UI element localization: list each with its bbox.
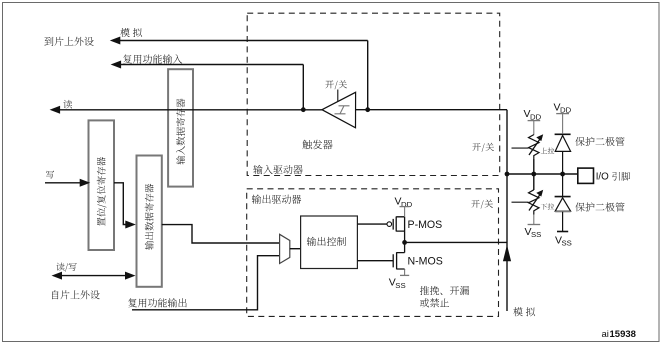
label 复用功能输出 (128, 298, 187, 307)
diode to V_SS 保护二极管 (562, 174, 564, 196)
wire node to pull-down (533, 174, 535, 190)
arrowhead AF input left (111, 61, 122, 69)
wire switch stub to pull-up (512, 147, 529, 149)
svg-text:15938: 15938 (610, 329, 636, 340)
junction dot analog/trigger-in (365, 107, 370, 112)
analog arrowhead up 模拟 (503, 245, 511, 261)
register box 输入数据寄存器 (168, 69, 193, 186)
label 写 (46, 171, 54, 179)
wire analog vertical drop (367, 41, 369, 110)
label 读/写 (56, 263, 76, 272)
wire vertical pad column (506, 110, 508, 311)
register box 置位/复位寄存器 (89, 120, 115, 250)
arrowhead read left (50, 106, 61, 114)
wire set/reset reg to output data reg (114, 183, 126, 225)
svg-text:P-MOS: P-MOS (408, 219, 443, 231)
wire analog line to peripherals (119, 40, 368, 42)
input driver dashed box 输入驱动器 (247, 13, 500, 175)
resistor pull-down zigzag (529, 190, 540, 215)
label 开/关 lower switch (471, 200, 493, 209)
svg-text:I/O: I/O (596, 172, 609, 183)
wire alternate function input line (120, 64, 303, 66)
schmitt trigger TTL 触发器 (322, 92, 356, 128)
label 开/关 upper switch (472, 143, 494, 152)
arrow across pull-down resistor (529, 195, 540, 211)
arrowhead analog left (110, 37, 121, 45)
label 复用功能输入 (123, 54, 182, 63)
I/O pin pad square (578, 168, 594, 183)
register box 输出数据寄存器 (137, 156, 162, 287)
wire mux to output control (290, 248, 301, 250)
wire I/O node line (507, 173, 578, 175)
label 到片上外设 (44, 37, 93, 46)
label 保护二极管 upper (575, 137, 624, 146)
label input data register 输入数据寄存器 (176, 99, 185, 165)
mux trapezoid (280, 234, 290, 263)
svg-text:DD: DD (401, 200, 413, 209)
junction dot MOS output (402, 240, 407, 245)
V_SS rail below lower diode (562, 212, 564, 232)
label 触发器 (302, 140, 332, 150)
label 下拉 (541, 203, 555, 209)
junction dot node at diodes (560, 172, 565, 177)
label 保护二极管 lower (575, 202, 624, 211)
P-MOS gate bubble (387, 222, 392, 227)
arrowhead r/w right (125, 272, 136, 280)
wire AF input vertical drop (302, 65, 304, 110)
svg-text:SS: SS (395, 281, 405, 290)
transistor P-MOS symbol (393, 217, 404, 243)
svg-text:ai: ai (602, 329, 609, 340)
arrowhead r/w left (52, 272, 63, 280)
label 开/关 at trigger (325, 80, 347, 89)
arrowhead into output data register (125, 221, 136, 229)
svg-text:SS: SS (562, 239, 572, 248)
wire write line (45, 182, 81, 184)
label 读 (63, 100, 72, 109)
diode to V_DD 保护二极管 (555, 133, 571, 135)
label 模拟 (bottom) (513, 307, 535, 316)
junction dot node at pull resistors (531, 172, 536, 177)
svg-text:N-MOS: N-MOS (408, 256, 443, 268)
wire pull-up to node (533, 159, 535, 174)
label bit set/reset register 置位/复位寄存器 (97, 157, 107, 226)
resistor pull-up zigzag (529, 135, 540, 159)
label input driver 输入驱动器 (253, 165, 302, 174)
wire gate line to P-MOS (357, 223, 387, 225)
label 或禁止 (420, 298, 449, 307)
switch indicator line at trigger (337, 90, 339, 102)
label 模拟 (top) (120, 28, 142, 37)
label output driver 输出驱动器 (252, 195, 301, 204)
arrowhead write right (80, 179, 91, 187)
label 上拉 (541, 148, 555, 154)
label output data register 输出数据寄存器 (145, 184, 154, 250)
wire MOS output to pad column (405, 241, 507, 243)
V_SS rail below pull-down (533, 215, 535, 225)
wire trigger input line to pad column (356, 109, 508, 111)
wire switch stub to pull-down (512, 201, 529, 203)
transistor N-MOS symbol (393, 242, 404, 269)
junction dot AF-input/read (301, 107, 306, 112)
output control box 输出控制 (301, 216, 358, 269)
wire read line (59, 109, 322, 111)
wire output data reg to mux (162, 225, 280, 243)
label 自片上外设 (52, 290, 100, 299)
wire gate line to N-MOS (357, 260, 393, 262)
output driver dashed box 输出驱动器 (247, 189, 499, 317)
junction dot node at column (505, 172, 510, 177)
hysteresis symbol (335, 106, 350, 114)
wire alternate function output line (132, 256, 280, 310)
V_SS rail at N-MOS (404, 269, 406, 275)
wire read/write double-arrow line (61, 275, 126, 277)
label 推挽、开漏 (420, 286, 469, 295)
arrow across pull-up resistor (529, 139, 540, 155)
svg-text:SS: SS (531, 230, 541, 239)
label 输出控制 (307, 237, 346, 246)
